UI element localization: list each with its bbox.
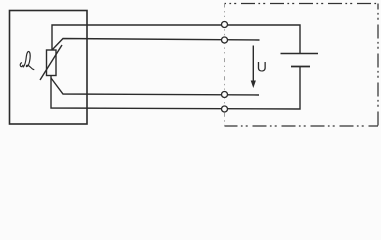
terminal circle T2 xyxy=(222,37,228,43)
instrument boundary bottom edge (dash-dot-dot) xyxy=(225,125,379,127)
resistor diagonal stroke xyxy=(40,45,62,80)
wire W2 (upper inner sense wire) xyxy=(52,39,260,51)
terminal circle T1 xyxy=(222,22,228,28)
wire W3 (lower inner sense wire) xyxy=(51,78,259,95)
wire W4 (bottom outer, sensor to battery -) xyxy=(51,66,300,109)
battery long plate (+) xyxy=(281,53,319,55)
sensor housing box xyxy=(10,11,88,125)
U measurement arrow xyxy=(252,46,254,83)
instrument boundary top edge (dash-dot-dot) xyxy=(225,3,379,5)
svg-text:U: U xyxy=(257,58,267,74)
terminal circle T3 xyxy=(222,92,228,98)
temperature symbol ϑ xyxy=(20,52,34,70)
terminal circle T4 xyxy=(222,106,228,112)
instrument boundary left edge (dash-dot-dot, faint) xyxy=(224,4,226,127)
instrument boundary right edge (dash-dot-dot) xyxy=(377,4,379,127)
RTD resistor body xyxy=(47,50,57,76)
wire W1 (top outer, sensor to battery +) xyxy=(52,25,300,53)
battery short plate (-) xyxy=(291,66,310,68)
